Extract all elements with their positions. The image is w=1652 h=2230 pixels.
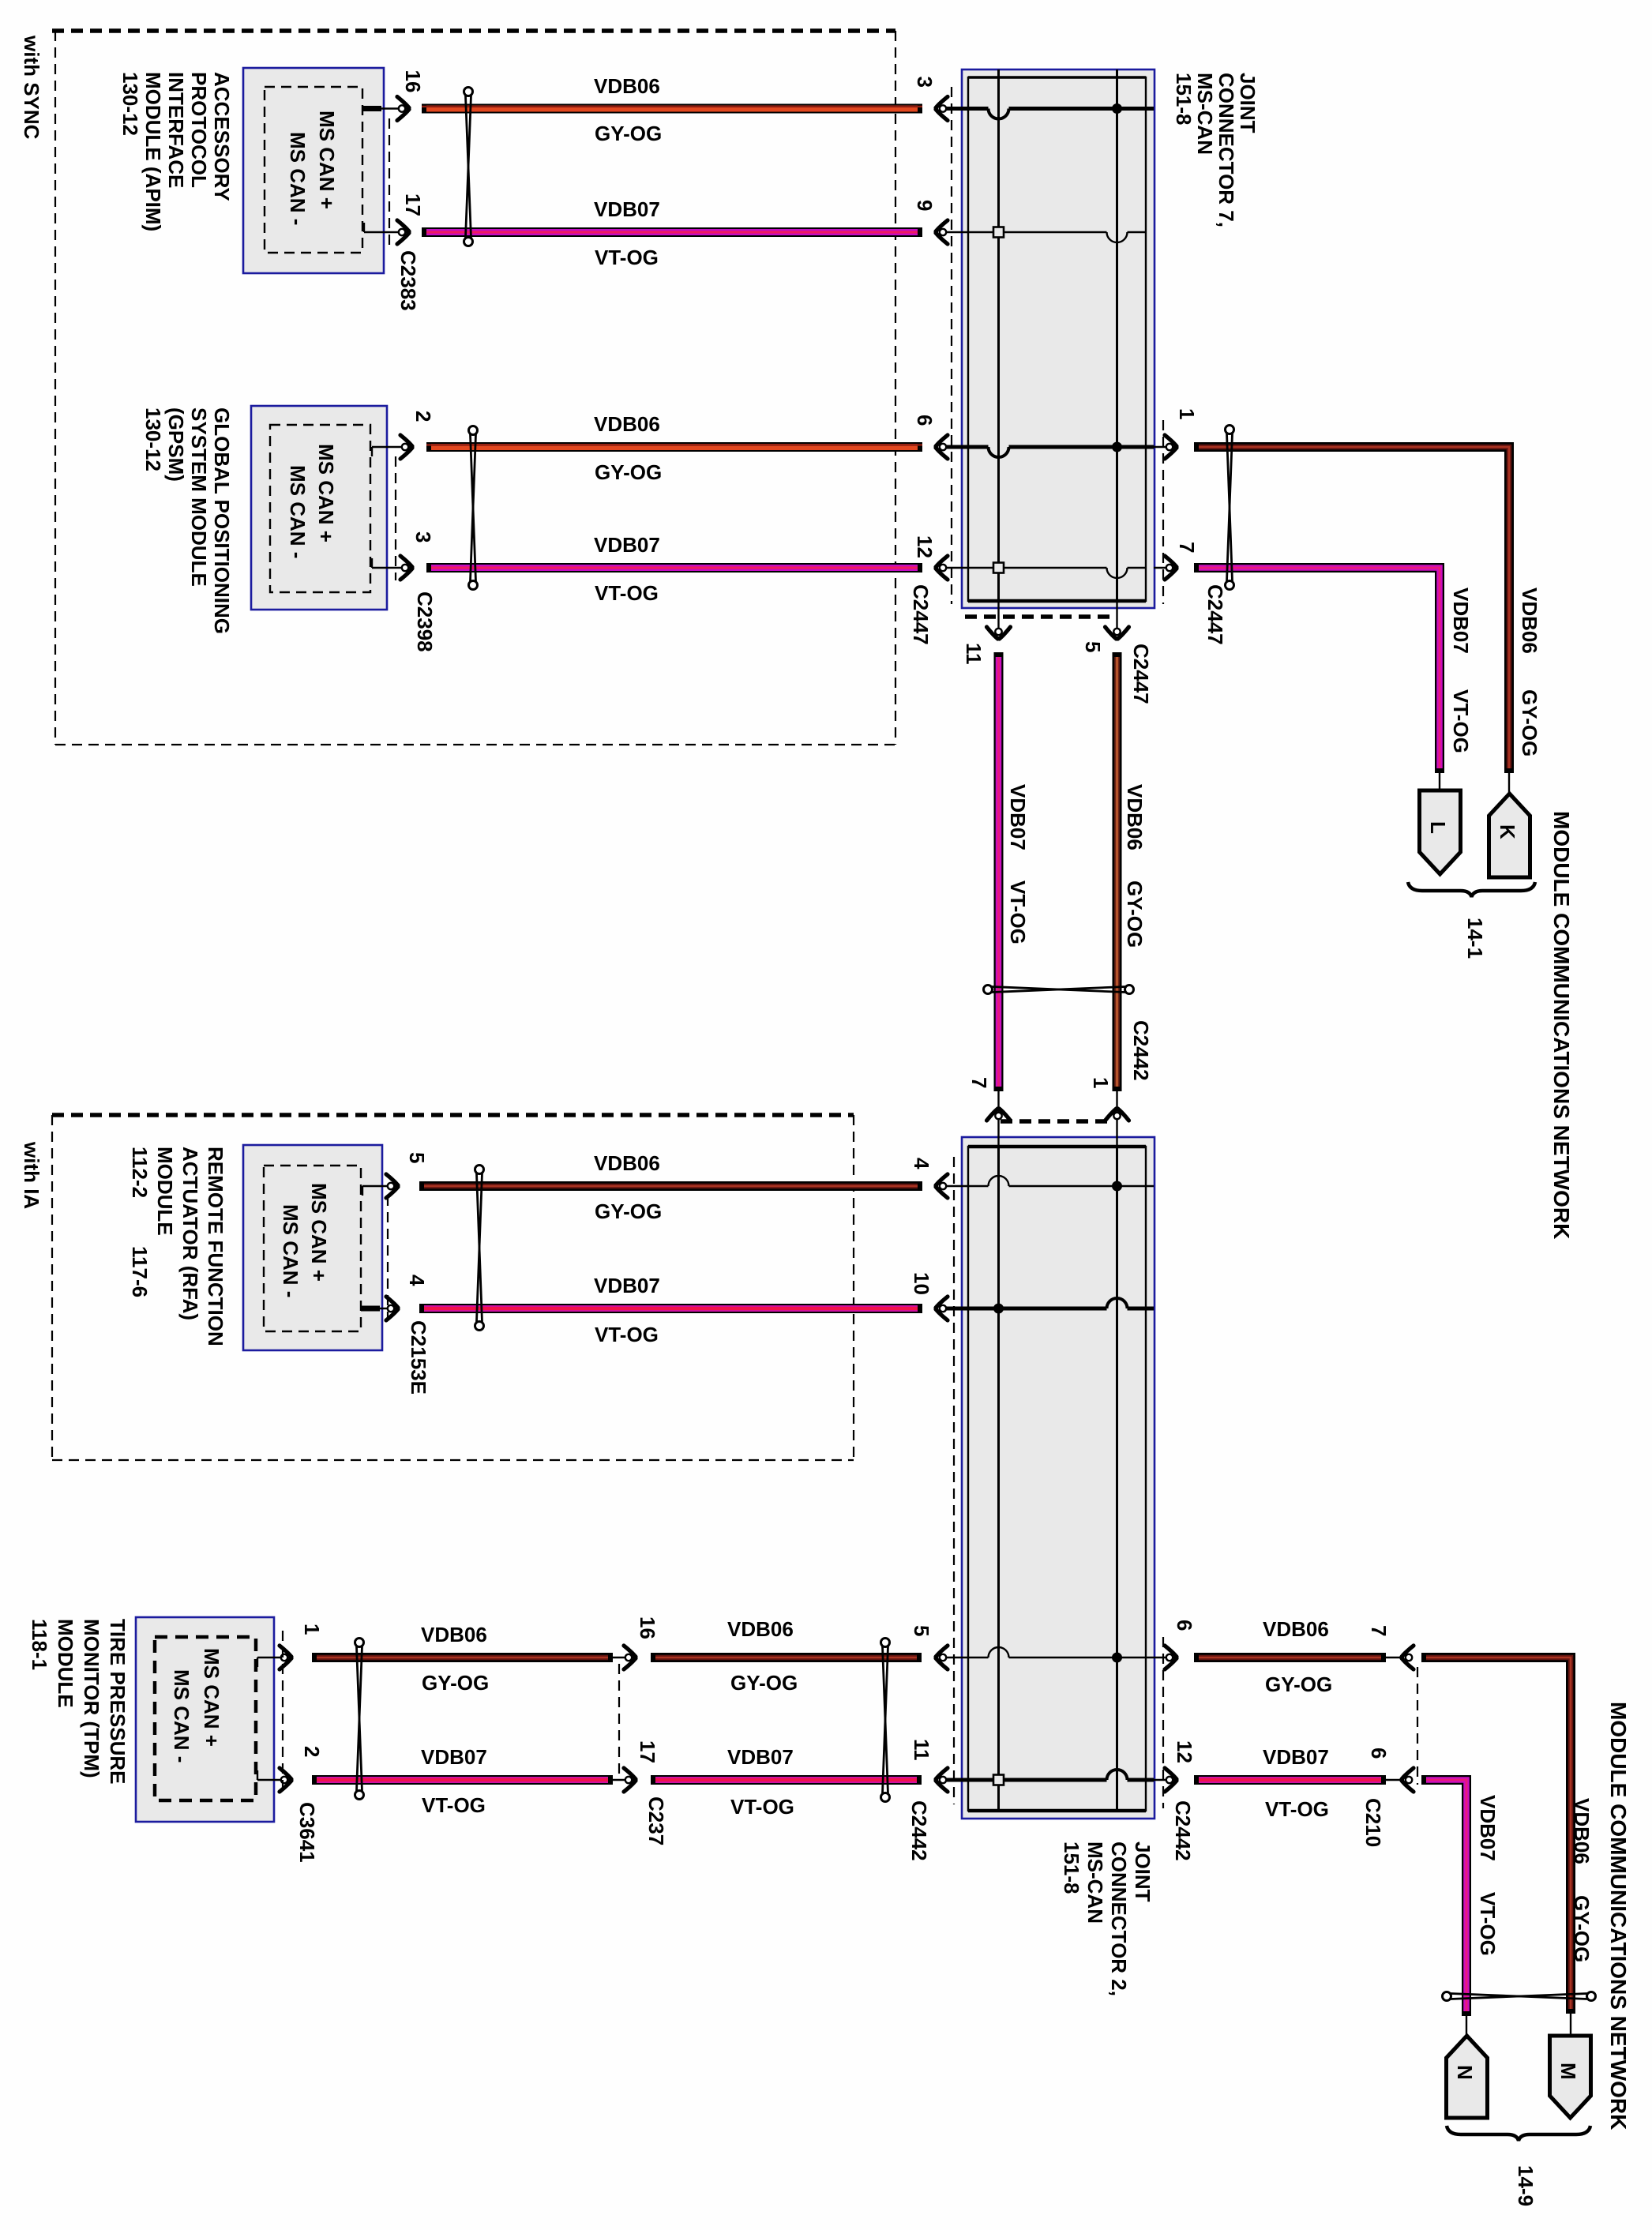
pin 2 label <box>411 411 435 422</box>
pin 7 label (JC7 right) <box>1175 542 1199 553</box>
svg-text:VDB07: VDB07 <box>421 1745 487 1769</box>
terminal M <box>1550 2036 1591 2118</box>
svg-text:3: 3 <box>913 77 937 88</box>
svg-text:VDB07: VDB07 <box>727 1745 794 1769</box>
dashed connector boundary C2383 <box>389 118 390 245</box>
connector label C210 <box>1361 1798 1385 1847</box>
arrow at C2398 pin 3 <box>400 556 414 580</box>
svg-text:VDB06: VDB06 <box>594 74 660 98</box>
svg-text:VT-OG: VT-OG <box>1265 1797 1329 1821</box>
svg-text:9: 9 <box>913 200 937 211</box>
wire VDB06 GY-OG (GPSM to JC7 pin6) <box>426 442 922 452</box>
dashed connector boundary right of JC7 <box>1162 420 1164 604</box>
wire VDB07 VT-OG (GPSM to JC7 pin12) <box>426 563 922 573</box>
pin 5 label (JC2) <box>910 1625 933 1636</box>
APIM label <box>118 72 234 231</box>
svg-text:GY-OG: GY-OG <box>1518 689 1541 756</box>
pin 3 label (JC7) <box>913 77 937 88</box>
terminal L <box>1420 790 1461 874</box>
joint connector 2 body (C2442) <box>962 1137 1155 1819</box>
label VT-OG (L run) <box>1449 689 1473 753</box>
svg-text:14-9: 14-9 <box>1514 2165 1537 2206</box>
svg-text:11: 11 <box>962 643 986 665</box>
arrow up JC2 pin 1 <box>1106 1107 1129 1121</box>
svg-text:VDB07: VDB07 <box>594 1274 660 1297</box>
svg-text:VDB07: VDB07 <box>594 533 660 557</box>
svg-text:2: 2 <box>411 411 435 422</box>
label VDB07 (vertical) <box>1006 784 1030 850</box>
lead line to terminal N <box>1466 2016 1467 2041</box>
pin 6 label (JC2 right) <box>1173 1620 1196 1631</box>
arrow at C237 pin 16 <box>624 1646 637 1669</box>
svg-text:GY-OG: GY-OG <box>730 1671 798 1695</box>
label VDB07 (N run) <box>1476 1795 1500 1861</box>
arrow out of JC7 pin 1 <box>1165 435 1178 459</box>
arrow into JC2 pin 11 <box>934 1768 948 1792</box>
svg-text:with IA: with IA <box>20 1141 43 1209</box>
svg-text:VDB07: VDB07 <box>1476 1795 1500 1861</box>
line JC7 pin1 exit <box>1154 446 1177 448</box>
svg-text:GY-OG: GY-OG <box>1570 1895 1594 1962</box>
module box RFA <box>243 1145 382 1350</box>
line C237 upper <box>613 1657 636 1658</box>
svg-text:6: 6 <box>1367 1748 1391 1759</box>
arrow at C210 pin 6 <box>1400 1768 1414 1792</box>
svg-text:GY-OG: GY-OG <box>1265 1672 1332 1696</box>
svg-text:C2442: C2442 <box>907 1800 931 1861</box>
arrow into JC2 pin 10 <box>934 1297 948 1320</box>
pin 1 label <box>300 1624 324 1635</box>
svg-text:MS CAN -: MS CAN - <box>286 465 310 558</box>
line JC7 pin5 exit <box>1116 601 1117 632</box>
svg-text:MS CAN +: MS CAN + <box>200 1648 223 1747</box>
line TPM pin2 to arrow <box>274 1779 292 1781</box>
module box TPM <box>136 1617 274 1822</box>
lead line to terminal M <box>1570 2014 1571 2036</box>
arrow into JC7 pin 12 <box>934 556 948 580</box>
wire VDB07 VT-OG (JC7 pin7 to terminal L) <box>1194 563 1444 773</box>
joint connector 2 label <box>1060 1841 1155 1996</box>
twisted pair symbol (M/N pair) <box>1443 1992 1596 2001</box>
svg-text:4: 4 <box>910 1158 933 1169</box>
label VT-OG (vertical) <box>1006 880 1030 944</box>
svg-text:117-6: 117-6 <box>128 1246 152 1297</box>
connector label C2442 (left of JC2) <box>907 1800 931 1861</box>
svg-text:1: 1 <box>300 1624 324 1635</box>
svg-text:C3641: C3641 <box>295 1802 319 1863</box>
TPM pin1 stub <box>257 1657 274 1667</box>
GPSM MS CAN- text <box>286 465 310 558</box>
pin 6 label (JC7) <box>913 415 937 426</box>
svg-text:VDB06: VDB06 <box>421 1623 487 1646</box>
pin 3 label <box>411 531 435 542</box>
svg-text:MODULE COMMUNICATIONS NETWORK: MODULE COMMUNICATIONS NETWORK <box>1606 1702 1631 2130</box>
svg-text:MS CAN +: MS CAN + <box>314 444 338 542</box>
dashed connector boundary right of JC2 <box>1162 1637 1164 1808</box>
terminal N <box>1447 2036 1488 2118</box>
svg-text:VDB06: VDB06 <box>594 412 660 436</box>
arrow out of JC2 pin 12 <box>1165 1768 1178 1792</box>
svg-text:VT-OG: VT-OG <box>1006 880 1030 944</box>
svg-text:7: 7 <box>1175 542 1199 553</box>
label VT-OG (N run) <box>1476 1892 1500 1956</box>
wire row pin3 inside JC7 (VDB06) <box>940 103 1154 119</box>
twisted pair symbol (GPSM) <box>469 426 478 590</box>
svg-text:5: 5 <box>1081 641 1105 652</box>
bus bar left (JC7 CAN-) <box>997 69 1000 601</box>
wire VDB07 vertical (JC7 pin11 to JC2 pin7) <box>994 652 1004 1091</box>
terminal K <box>1489 794 1530 877</box>
arrow into JC7 pin 3 <box>934 97 948 121</box>
svg-text:VDB06: VDB06 <box>594 1151 660 1175</box>
connector label C2398 <box>413 591 437 652</box>
pin 16 label (C237) <box>636 1616 659 1639</box>
svg-text:1: 1 <box>1089 1077 1113 1088</box>
svg-text:5: 5 <box>405 1152 429 1163</box>
pin 17 label (C237) <box>636 1740 659 1763</box>
terminal M letter <box>1556 2063 1580 2080</box>
wire VDB06 GY-OG (JC2 pin6 to C210) <box>1194 1653 1386 1662</box>
terminal L letter <box>1426 821 1450 834</box>
svg-text:C2398: C2398 <box>413 591 437 652</box>
RFA label 117-6 <box>128 1246 152 1297</box>
pin 5 label <box>405 1152 429 1163</box>
GPSM pin3 stub <box>372 558 387 568</box>
line into JC2 pin1 top <box>1116 1091 1117 1147</box>
svg-text:GY-OG: GY-OG <box>1123 880 1147 948</box>
wire row pin4 inside JC2 (VDB06) <box>940 1176 1154 1191</box>
pin 12 label (JC7) <box>913 535 937 558</box>
arrow out of JC7 pin 7 <box>1165 556 1178 580</box>
pin 10 label (JC2) <box>910 1272 933 1295</box>
pin 1 label (JC2 top) <box>1089 1077 1113 1088</box>
RFA MS CAN- text <box>279 1204 302 1297</box>
dashed connector boundary C3641 <box>282 1631 283 1791</box>
svg-text:6: 6 <box>913 415 937 426</box>
svg-text:VDB07: VDB07 <box>594 197 660 221</box>
label VDB06 (M run) <box>1570 1798 1594 1864</box>
lead line to terminal K <box>1508 773 1510 799</box>
line into JC2 pin7 top <box>997 1091 999 1147</box>
TPM label <box>28 1619 130 1785</box>
wire VDB07 VT-OG (C210 to terminal N) <box>1421 1775 1471 2016</box>
svg-text:C2383: C2383 <box>396 250 420 311</box>
APIM MS CAN- text <box>286 132 310 225</box>
line TPM pin1 to arrow <box>274 1657 292 1658</box>
bus bar right (JC2 CAN+) <box>1116 1147 1118 1811</box>
line JC2 pin6 exit <box>1154 1657 1177 1658</box>
terminal K letter <box>1496 824 1519 839</box>
svg-text:VDB07: VDB07 <box>1006 784 1030 850</box>
label GY-OG (K run) <box>1518 689 1541 756</box>
svg-text:10: 10 <box>910 1272 933 1295</box>
wire VDB06 GY-OG (TPM to C237) <box>312 1653 613 1662</box>
module box APIM <box>243 68 384 273</box>
RFA MS CAN+ text <box>307 1183 331 1282</box>
arrow at C2383 pin 17 <box>397 220 411 244</box>
dashed connector boundary C2398 <box>395 456 396 580</box>
svg-text:K: K <box>1496 824 1519 839</box>
label VDB06 (K run) <box>1518 588 1541 654</box>
line RFA pin4 to arrow <box>382 1308 399 1309</box>
TPM MS CAN- text <box>170 1669 193 1763</box>
wire VDB06 GY-OG (RFA to JC2 pin4) <box>419 1181 922 1191</box>
TPM pin2 stub <box>257 1770 274 1780</box>
svg-text:4: 4 <box>405 1275 429 1286</box>
label VDB07 (L run) <box>1449 588 1473 654</box>
svg-text:VDB06: VDB06 <box>1570 1798 1594 1864</box>
svg-text:GY-OG: GY-OG <box>595 122 662 145</box>
svg-text:C237: C237 <box>644 1796 668 1845</box>
arrow at C210 pin 7 <box>1400 1646 1414 1669</box>
svg-text:MODULE COMMUNICATIONS NETWORK: MODULE COMMUNICATIONS NETWORK <box>1549 811 1574 1239</box>
brace under K and L <box>1408 882 1535 897</box>
line GPSM pin3 to arrow <box>387 567 413 569</box>
svg-text:VDB06: VDB06 <box>1263 1617 1329 1641</box>
label: with SYNC <box>20 35 43 140</box>
brace under N and M <box>1447 2126 1590 2141</box>
svg-text:3: 3 <box>411 531 435 542</box>
wire VDB06 vertical (JC7 pin5 to JC2 pin1) <box>1113 652 1122 1091</box>
pin 7 label (C210) <box>1367 1625 1391 1636</box>
connector label C2153E <box>407 1320 430 1395</box>
pin 6 label (C210) <box>1367 1748 1391 1759</box>
line C210 upper <box>1386 1657 1401 1658</box>
pin 9 label (JC7) <box>913 200 937 211</box>
svg-text:VDB06: VDB06 <box>1123 784 1147 850</box>
svg-text:C2447: C2447 <box>1203 584 1227 645</box>
RFA label <box>128 1147 227 1346</box>
wire row pin12 inside JC7 (VDB07) <box>940 563 1146 579</box>
connector label C237 <box>644 1796 668 1845</box>
wire row pin11 inside JC2 (VDB07) <box>940 1770 1154 1785</box>
dashed connector boundary C210 <box>1417 1667 1418 1785</box>
svg-text:C2447: C2447 <box>1129 644 1153 704</box>
dashed connector boundary left of JC2 <box>953 1157 955 1804</box>
svg-text:VT-OG: VT-OG <box>595 1323 659 1346</box>
GPSM MS CAN+ text <box>314 444 338 542</box>
twisted pair symbol (TPM seg2) <box>881 1639 890 1802</box>
twisted pair symbol (TPM seg1) <box>355 1639 364 1800</box>
wire VDB06 GY-OG (C210 to terminal M) <box>1421 1653 1575 2014</box>
APIM pin16 stub <box>362 106 384 111</box>
arrow out of JC2 pin 6 <box>1165 1646 1178 1669</box>
pin 17 label <box>401 193 425 216</box>
svg-text:N: N <box>1453 2065 1477 2080</box>
svg-text:with SYNC: with SYNC <box>20 35 43 140</box>
arrow up JC2 pin 7 <box>987 1107 1011 1121</box>
label GY-OG (vertical) <box>1123 880 1147 948</box>
twisted pair symbol (K/L pair) <box>1226 426 1234 590</box>
dashed region box: with IA <box>52 1115 854 1460</box>
svg-text:GY-OG: GY-OG <box>595 460 662 484</box>
svg-text:5: 5 <box>910 1625 933 1636</box>
svg-text:VT-OG: VT-OG <box>422 1793 486 1817</box>
svg-text:MS CAN -: MS CAN - <box>170 1669 193 1763</box>
line RFA pin5 to arrow <box>382 1185 399 1187</box>
arrow at C3641 pin 1 <box>280 1646 293 1669</box>
module box GPSM <box>251 406 387 610</box>
svg-text:C2153E: C2153E <box>407 1320 430 1395</box>
joint connector 7 label <box>1172 73 1260 227</box>
dashed region box: with SYNC <box>52 31 895 745</box>
svg-text:VDB07: VDB07 <box>1263 1745 1329 1769</box>
pin 2 label <box>300 1746 324 1757</box>
svg-text:12: 12 <box>913 535 937 558</box>
svg-text:VT-OG: VT-OG <box>730 1795 794 1819</box>
label MODULE COMMUNICATIONS NETWORK (bottom) <box>1606 1702 1631 2130</box>
svg-text:GY-OG: GY-OG <box>422 1671 489 1695</box>
connector label C2447 (right of JC7) <box>1203 584 1227 645</box>
svg-text:VDB07: VDB07 <box>1449 588 1473 654</box>
svg-text:VT-OG: VT-OG <box>1476 1892 1500 1956</box>
svg-text:17: 17 <box>636 1740 659 1763</box>
svg-text:L: L <box>1426 821 1450 834</box>
arrow into JC7 pin 9 <box>934 220 948 244</box>
wire row pin10 inside JC2 (VDB07) <box>940 1298 1154 1314</box>
connector label C3641 <box>295 1802 319 1863</box>
wire VDB07 VT-OG (C237 to JC2 pin11) <box>651 1775 922 1785</box>
connector label C2442 (right of JC2) <box>1171 1800 1195 1861</box>
svg-text:M: M <box>1556 2063 1580 2080</box>
GPSM pin2 stub <box>372 447 387 456</box>
RFA pin5 stub <box>362 1186 382 1196</box>
line APIM pin16 to arrow <box>384 107 410 109</box>
label 14-9 <box>1514 2165 1537 2206</box>
svg-text:17: 17 <box>401 193 425 216</box>
svg-text:MS CAN -: MS CAN - <box>279 1204 302 1297</box>
wire row pin6 inside JC7 (VDB06) <box>940 442 1154 458</box>
svg-text:C2442: C2442 <box>1171 1800 1195 1861</box>
arrow at C3641 pin 2 <box>280 1768 293 1792</box>
label GY-OG (M run) <box>1570 1895 1594 1962</box>
arrow down JC7 pin 11 <box>987 627 1011 640</box>
svg-text:VT-OG: VT-OG <box>595 246 659 269</box>
RFA pin4 stub <box>361 1306 382 1312</box>
dashed connector boundary left of JC7 <box>951 87 952 604</box>
wire VDB07 VT-OG (JC2 pin12 to C210) <box>1194 1775 1386 1785</box>
bus bar right (JC7 CAN+) <box>1116 69 1118 601</box>
svg-text:MS CAN -: MS CAN - <box>286 132 310 225</box>
svg-text:16: 16 <box>401 70 425 93</box>
svg-text:14-1: 14-1 <box>1463 918 1487 959</box>
line JC2 pin12 exit <box>1154 1779 1177 1781</box>
svg-text:7: 7 <box>967 1077 991 1088</box>
wire VDB06 GY-OG (JC7 pin1 to terminal K) <box>1194 442 1514 773</box>
svg-text:C210: C210 <box>1361 1798 1385 1847</box>
arrow down JC7 pin 5 <box>1106 627 1129 640</box>
line C210 lower <box>1386 1779 1401 1781</box>
pin 4 label (JC2) <box>910 1158 933 1169</box>
svg-text:11: 11 <box>910 1739 933 1761</box>
line JC7 pin7 exit <box>1154 567 1177 569</box>
arrow at C2153E pin 4 <box>386 1297 400 1320</box>
pin 4 label <box>405 1275 429 1286</box>
wire VDB07 VT-OG (TPM to C237) <box>312 1775 613 1785</box>
svg-text:7: 7 <box>1367 1625 1391 1636</box>
twisted pair symbol (vertical pair) <box>984 985 1134 994</box>
dashed connector boundary C2153E <box>387 1196 389 1321</box>
label MODULE COMMUNICATIONS NETWORK (top) <box>1549 811 1574 1239</box>
svg-text:16: 16 <box>636 1616 659 1639</box>
line JC7 pin11 exit <box>997 601 999 632</box>
connector label C2383 <box>396 250 420 311</box>
arrow at C2398 pin 2 <box>400 435 414 459</box>
joint connector 7 body (C2447) <box>962 69 1155 608</box>
connector label C2442 (right of JC2 pin1) <box>1129 1020 1153 1081</box>
arrow at C2383 pin 16 <box>397 97 411 121</box>
APIM MS CAN+ text <box>315 111 339 209</box>
connector label C2447 (left of JC7 pins) <box>909 584 933 645</box>
connector label C2447 (below JC7 pin5) <box>1129 644 1153 704</box>
wire row pin9 inside JC7 (VDB07) <box>940 227 1146 243</box>
svg-text:MS CAN +: MS CAN + <box>315 111 339 209</box>
arrow into JC7 pin 6 <box>934 435 948 459</box>
pin 1 label (JC7 right) <box>1175 408 1199 419</box>
wire row pin5 inside JC2 (VDB06) <box>940 1647 1154 1663</box>
line C237 lower <box>613 1779 636 1781</box>
pin 11 label (JC7 bottom) <box>962 643 986 665</box>
svg-text:GY-OG: GY-OG <box>595 1199 662 1223</box>
bold dashed boundary under JC7 (C2447) <box>965 614 1109 619</box>
wire VDB07 VT-OG (RFA to JC2 pin10) <box>419 1304 922 1313</box>
wire VDB06 GY-OG (APIM to JC7 pin3) <box>422 104 922 114</box>
svg-text:VDB06: VDB06 <box>727 1617 794 1641</box>
arrow into JC2 pin 5 <box>934 1646 948 1669</box>
dashed connector boundary C237 <box>618 1664 620 1779</box>
TPM MS CAN+ text <box>200 1648 223 1747</box>
lead line to terminal L <box>1439 773 1440 790</box>
svg-text:VT-OG: VT-OG <box>595 581 659 605</box>
svg-text:1: 1 <box>1175 408 1199 419</box>
svg-text:6: 6 <box>1173 1620 1196 1631</box>
label: with IA <box>20 1141 43 1209</box>
APIM pin17 stub <box>364 223 384 232</box>
pin 11 label (JC2) <box>910 1739 933 1761</box>
arrow at C237 pin 17 <box>624 1768 637 1792</box>
arrow at C2153E pin 5 <box>386 1174 400 1198</box>
svg-text:VDB06: VDB06 <box>1518 588 1541 654</box>
svg-text:12: 12 <box>1173 1740 1196 1763</box>
line APIM pin17 to arrow <box>384 231 410 233</box>
arrow into JC2 pin 4 <box>934 1174 948 1198</box>
svg-text:VT-OG: VT-OG <box>1449 689 1473 753</box>
svg-text:C2442: C2442 <box>1129 1020 1153 1081</box>
pin 12 label (JC2 right) <box>1173 1740 1196 1763</box>
svg-text:MS CAN +: MS CAN + <box>307 1183 331 1282</box>
wire VDB07 VT-OG (APIM to JC7 pin9) <box>422 227 922 237</box>
terminal N letter <box>1453 2065 1477 2080</box>
twisted pair symbol (APIM) <box>464 88 473 246</box>
bus bar left (JC2 CAN-) <box>997 1147 1000 1811</box>
pin 16 label <box>401 70 425 93</box>
wire VDB06 GY-OG (C237 to JC2 pin5) <box>651 1653 922 1662</box>
label 14-1 <box>1463 918 1487 959</box>
svg-text:2: 2 <box>300 1746 324 1757</box>
GPSM label <box>141 407 234 634</box>
pin 5 label (JC7 bottom) <box>1081 641 1105 652</box>
twisted pair symbol (RFA) <box>475 1166 484 1331</box>
line GPSM pin2 to arrow <box>387 446 413 448</box>
bold dashed boundary above JC2 (C2442) <box>1001 1119 1109 1124</box>
pin 7 label (JC2 top) <box>967 1077 991 1088</box>
svg-text:C2447: C2447 <box>909 584 933 645</box>
label VDB06 (vertical) <box>1123 784 1147 850</box>
